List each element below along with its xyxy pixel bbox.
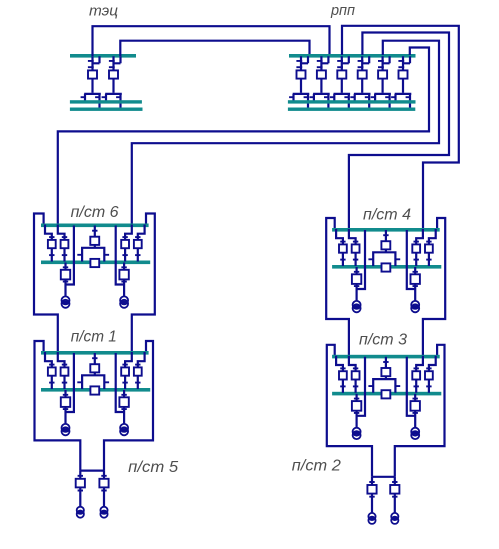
bus section switch п/ст 3 on lower bus xyxy=(382,390,391,398)
svg-text:п/ст 2: п/ст 2 xyxy=(292,458,341,475)
transformer feeder with transformer T п/ст 3 left xyxy=(352,357,365,439)
wire: п/ст 2 tie between incoming lines xyxy=(372,476,395,478)
transformer feeder with transformer T п/ст 6 left xyxy=(61,226,74,308)
bus: тэц generator busbar xyxy=(70,54,136,58)
breaker bay п/ст 1 outer left xyxy=(45,352,56,389)
п/ст 3 enclosure left wall xyxy=(327,345,372,477)
breaker bay п/ст 1 inner left xyxy=(58,352,69,389)
breaker bay п/ст 6 outer right xyxy=(134,225,145,262)
bus: п/ст 3 upper busbar xyxy=(332,355,440,359)
breaker bay п/ст 4 outer right xyxy=(425,229,436,266)
transformer feeder with transformer T п/ст 1 right xyxy=(116,353,129,435)
feeder bay Q6 рпп xyxy=(391,56,411,109)
bus: п/ст 4 upper busbar xyxy=(332,228,440,232)
breaker bay п/ст 3 outer right xyxy=(425,356,436,393)
breaker bay п/ст 4 inner right xyxy=(412,229,423,266)
bus section switch п/ст 6 on lower bus xyxy=(90,259,99,267)
bus: тэц lower busbar 2 xyxy=(70,108,143,111)
breaker bay п/ст 4 inner left xyxy=(349,229,360,266)
breaker bay п/ст 3 inner right xyxy=(412,356,423,393)
bus: рпп upper busbar xyxy=(289,54,416,58)
svg-text:п/ст 4: п/ст 4 xyxy=(363,207,411,224)
breaker bay п/ст 4 outer left xyxy=(336,229,347,266)
bus: п/ст 1 upper busbar xyxy=(41,351,149,355)
bus: п/ст 1 lower busbar xyxy=(41,388,150,392)
bus: рпп lower busbar 1 xyxy=(288,100,416,103)
svg-text:рпп: рпп xyxy=(330,2,355,19)
bus: п/ст 6 upper busbar xyxy=(41,224,149,228)
п/ст 6 enclosure right wall xyxy=(132,214,155,353)
feeder bay Q3 рпп xyxy=(330,56,350,109)
wire: тэц feeder 1 to рпп bus (upper route) xyxy=(93,26,330,56)
п/ст 4 enclosure right wall xyxy=(423,218,445,356)
bus-tie breaker bay п/ст 4 center xyxy=(368,230,400,266)
transformer feeder with transformer T п/ст 4 right xyxy=(407,230,420,312)
breaker bay п/ст 6 inner right xyxy=(121,225,132,262)
transformer feeder with transformer T п/ст 4 left xyxy=(352,230,365,312)
transformer feeder with transformer T п/ст 2 right xyxy=(390,477,399,524)
generator bay G2 тэц right xyxy=(102,56,122,109)
wire: рпп feeder 5 loop to п/ст 6 right xyxy=(132,41,439,225)
transformer feeder with transformer T п/ст 1 left xyxy=(61,353,74,435)
breaker bay п/ст 6 inner left xyxy=(58,225,69,262)
feeder bay Q1 рпп xyxy=(289,56,309,109)
wire: п/ст 5 tie between incoming lines xyxy=(80,470,104,472)
bus-tie breaker bay п/ст 1 center xyxy=(77,353,109,389)
feeder bay Q2 рпп xyxy=(310,56,330,109)
breaker bay п/ст 3 outer left xyxy=(336,356,347,393)
transformer feeder with transformer T п/ст 5 left xyxy=(76,471,85,518)
svg-text:п/ст 1: п/ст 1 xyxy=(71,329,117,346)
bus: п/ст 6 lower busbar xyxy=(41,261,150,265)
generator bay G1 тэц left xyxy=(81,56,101,109)
wire: рпп feeder 6 loop to п/ст 6 left xyxy=(58,48,429,225)
wire: тэц feeder 2 to рпп bus (lower route) xyxy=(120,41,309,56)
breaker bay п/ст 1 inner right xyxy=(121,352,132,389)
bus: п/ст 4 lower busbar xyxy=(332,265,441,269)
wire: рпп feeder 4 loop to п/ст 4 left xyxy=(349,33,449,230)
breaker bay п/ст 1 outer right xyxy=(134,352,145,389)
п/ст 1 enclosure left wall xyxy=(35,341,81,471)
п/ст 6 enclosure left wall xyxy=(34,214,58,353)
transformer feeder with transformer T п/ст 3 right xyxy=(407,357,420,439)
feeder bay Q4 рпп xyxy=(350,56,370,109)
п/ст 4 enclosure left wall xyxy=(326,218,349,356)
transformer feeder with transformer T п/ст 6 right xyxy=(116,226,129,308)
wire: рпп feeder 3 loop to п/ст 4 right xyxy=(342,26,459,229)
bus-tie breaker bay п/ст 3 center xyxy=(368,357,400,393)
п/ст 1 enclosure right wall xyxy=(104,341,153,471)
transformer feeder with transformer T п/ст 5 right xyxy=(99,471,108,518)
breaker bay п/ст 3 inner left xyxy=(349,356,360,393)
п/ст 3 enclosure right wall xyxy=(395,345,445,477)
bus-tie breaker bay п/ст 6 center xyxy=(77,226,109,262)
bus: рпп lower busbar 2 xyxy=(288,108,415,111)
bus: п/ст 3 lower busbar xyxy=(332,392,441,396)
bus section switch п/ст 4 on lower bus xyxy=(382,263,391,271)
transformer feeder with transformer T п/ст 2 left xyxy=(367,477,376,524)
breaker bay п/ст 6 outer left xyxy=(45,225,56,262)
bus section switch п/ст 1 on lower bus xyxy=(90,386,99,394)
svg-text:п/ст 6: п/ст 6 xyxy=(71,204,119,221)
bus: тэц lower busbar 1 xyxy=(70,100,142,103)
svg-text:тэц: тэц xyxy=(89,3,118,20)
feeder bay Q5 рпп xyxy=(371,56,391,109)
svg-text:п/ст 5: п/ст 5 xyxy=(128,459,178,476)
svg-text:п/ст 3: п/ст 3 xyxy=(359,332,407,349)
